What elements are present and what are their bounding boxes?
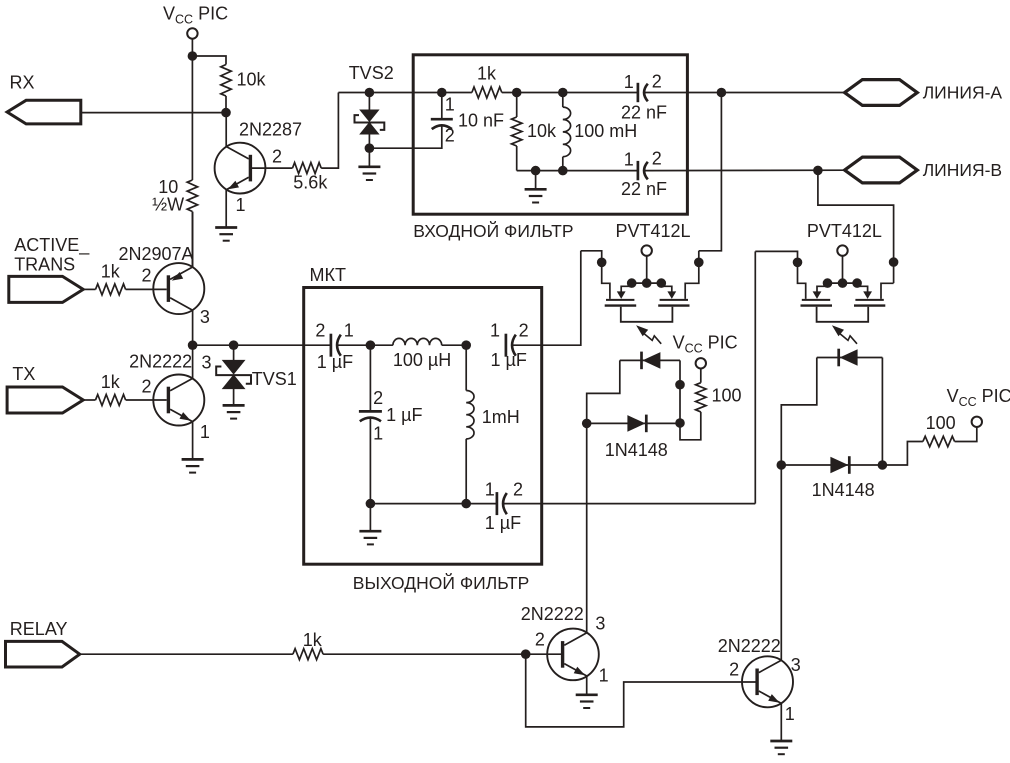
svg-text:1: 1 xyxy=(344,321,354,341)
pin 1 label xyxy=(344,321,354,341)
svg-text:1: 1 xyxy=(445,94,455,114)
svg-text:1: 1 xyxy=(373,423,383,443)
label 1N4148 xyxy=(605,440,668,460)
port RX label xyxy=(10,73,35,93)
svg-text:1 µF: 1 µF xyxy=(317,352,353,372)
inductor L 1mH xyxy=(466,391,474,439)
svg-text:3: 3 xyxy=(200,307,210,327)
wire xyxy=(233,345,235,360)
node junction xyxy=(461,340,471,350)
svg-text:1: 1 xyxy=(624,149,634,169)
port TX connector xyxy=(7,387,83,413)
node junction xyxy=(366,340,376,350)
wire VCC vertical xyxy=(191,56,193,180)
svg-text:2N2222: 2N2222 xyxy=(521,604,584,624)
terminal VCC PIC (top) xyxy=(187,28,197,38)
svg-text:1k: 1k xyxy=(101,261,121,281)
label PVT412L (right) xyxy=(807,221,882,241)
power VCC PIC (right) label xyxy=(947,386,1010,409)
pin 2 label xyxy=(272,147,282,167)
emitter arrow xyxy=(180,412,191,421)
wire xyxy=(83,288,95,290)
node junction xyxy=(188,340,198,350)
resistor R 1k (relay) xyxy=(293,649,323,660)
pin dot xyxy=(793,258,803,268)
wire xyxy=(562,93,564,108)
pin 2 label xyxy=(445,126,455,146)
svg-text:1N4148: 1N4148 xyxy=(812,480,875,500)
svg-text:RELAY: RELAY xyxy=(10,619,68,639)
label 1k xyxy=(101,261,121,281)
wire bottom output xyxy=(503,503,755,505)
opto arrow (left relay) xyxy=(636,325,661,344)
wire drain left xyxy=(755,251,805,299)
label 1k xyxy=(477,64,497,84)
diode D 1N4148 (right) xyxy=(830,456,849,474)
pin 3 label xyxy=(200,307,210,327)
svg-text:VCC PIC: VCC PIC xyxy=(163,4,228,27)
diode D 1N4148 (left) xyxy=(627,415,646,433)
pin 1 label xyxy=(485,480,495,500)
wire drain right xyxy=(881,283,894,299)
label 1N4148 xyxy=(812,480,875,500)
label 2N2222 (tx) xyxy=(129,352,192,372)
label PVT412L (left) xyxy=(616,221,691,241)
wire bottom rail xyxy=(517,170,637,172)
svg-text:1k: 1k xyxy=(101,372,121,392)
transistor Q2 2N2907A xyxy=(153,263,204,314)
svg-text:2: 2 xyxy=(519,321,529,341)
wire long vertical xyxy=(754,251,756,503)
pin 2 label xyxy=(535,630,545,650)
label 22 nF xyxy=(621,103,667,123)
wire xyxy=(881,358,883,466)
label half-W xyxy=(152,195,184,215)
svg-text:100: 100 xyxy=(926,413,956,433)
svg-text:2: 2 xyxy=(513,480,523,500)
emitter arrow xyxy=(768,694,779,703)
label 1k xyxy=(303,630,323,650)
pin dot xyxy=(675,380,685,390)
node junction xyxy=(365,88,375,98)
ground xyxy=(215,228,237,241)
emitter arrow (PNP) xyxy=(172,272,183,281)
svg-text:1k: 1k xyxy=(477,64,497,84)
wire top rail mid xyxy=(502,92,637,94)
wire xyxy=(192,56,226,65)
svg-text:3: 3 xyxy=(202,352,212,372)
port ACTIVE_TRANS connector xyxy=(9,276,83,302)
wire xyxy=(191,39,193,56)
port LINIYA-A label xyxy=(923,82,1003,102)
port TX label xyxy=(12,364,35,384)
pin 2 label xyxy=(142,376,152,396)
pin 1 label xyxy=(599,666,609,686)
node junction xyxy=(558,88,568,98)
pin 1 label xyxy=(200,422,210,442)
label 10k xyxy=(237,70,267,90)
svg-text:2N2287: 2N2287 xyxy=(239,119,302,139)
wire xyxy=(699,93,722,251)
wire top rail right xyxy=(645,92,845,94)
label 10 xyxy=(158,177,178,197)
svg-text:5.6k: 5.6k xyxy=(293,172,328,192)
power VCC PIC (mid) label xyxy=(673,333,738,356)
wire xyxy=(369,126,441,148)
capacitor C 1uF (series output) xyxy=(506,334,516,357)
pin 1 label xyxy=(373,423,383,443)
svg-text:1: 1 xyxy=(490,321,500,341)
terminal VCC PIC (mid) xyxy=(696,358,706,368)
svg-text:2: 2 xyxy=(535,630,545,650)
pin 3 label xyxy=(595,614,605,634)
pin 3 label xyxy=(202,352,212,372)
wire collector xyxy=(192,310,194,345)
wire base xyxy=(126,288,167,290)
wire emitter xyxy=(225,190,227,227)
wire xyxy=(680,360,701,439)
wire xyxy=(587,422,680,424)
node junction xyxy=(531,166,541,176)
svg-text:100 mH: 100 mH xyxy=(574,121,637,141)
resistor R 1k (filter) xyxy=(472,87,502,98)
node junction xyxy=(461,499,471,509)
wire ground stem xyxy=(535,171,537,189)
pin dot xyxy=(889,257,899,267)
svg-text:ВХОДНОЙ ФИЛЬТР: ВХОДНОЙ ФИЛЬТР xyxy=(413,220,573,241)
label 22 nF xyxy=(621,179,667,199)
svg-text:ВЫХОДНОЙ ФИЛЬТР: ВЫХОДНОЙ ФИЛЬТР xyxy=(353,572,530,593)
svg-text:½W: ½W xyxy=(152,195,184,215)
wire base xyxy=(126,399,167,401)
wire LED xyxy=(817,357,883,359)
svg-text:VCC PIC: VCC PIC xyxy=(947,386,1010,409)
resistor R 1k (active) xyxy=(96,284,126,295)
pin 1 label xyxy=(236,195,246,215)
port RX connector xyxy=(7,100,81,124)
port LINIYA-A connector xyxy=(845,80,918,106)
svg-text:2: 2 xyxy=(142,376,152,396)
label 2N2222 (relay b) xyxy=(718,636,781,656)
wire xyxy=(882,442,923,466)
ground xyxy=(182,459,204,472)
label 100 uH xyxy=(393,350,451,370)
pin 1 label xyxy=(624,72,634,92)
wire xyxy=(562,157,564,171)
svg-text:3: 3 xyxy=(791,655,801,675)
wire RX xyxy=(81,112,226,114)
svg-text:2: 2 xyxy=(652,149,662,169)
pin dot xyxy=(597,258,607,268)
pin 1 label xyxy=(624,149,634,169)
wire collector column xyxy=(586,423,588,633)
node junction xyxy=(188,51,198,61)
wire base step xyxy=(526,654,756,727)
pin dot xyxy=(694,258,704,268)
port LINIYA-B label xyxy=(923,160,1002,180)
ground xyxy=(358,167,380,180)
capacitor C 22nF (line A) xyxy=(638,83,648,102)
resistor R 100 (left) xyxy=(696,383,706,412)
diode LED (right relay) xyxy=(839,349,858,367)
label 1 uF xyxy=(485,513,521,533)
capacitor C 1uF (series bottom) xyxy=(497,492,507,515)
svg-text:1: 1 xyxy=(200,422,210,442)
emitter arrow xyxy=(574,667,585,676)
svg-text:10k: 10k xyxy=(527,121,557,141)
pin 2 label xyxy=(142,266,152,286)
port RELAY label xyxy=(10,619,68,639)
wire xyxy=(818,170,894,283)
svg-text:1 µF: 1 µF xyxy=(485,513,521,533)
relay U1 PVT412L output mosfets xyxy=(605,245,690,321)
wire bottom rail xyxy=(370,503,497,505)
wire xyxy=(781,358,817,466)
wire ground stem xyxy=(368,148,370,166)
label 100 mH xyxy=(574,121,637,141)
svg-text:2N2222: 2N2222 xyxy=(129,352,192,372)
svg-text:2: 2 xyxy=(373,388,383,408)
wire xyxy=(368,93,370,110)
label 1mH xyxy=(482,407,520,427)
ground xyxy=(770,741,792,754)
port ACTIVE_TRANS label xyxy=(14,235,90,274)
wire base xyxy=(526,653,561,655)
terminal VCC PIC (right) xyxy=(972,417,982,427)
node junction xyxy=(229,340,239,350)
svg-text:1: 1 xyxy=(236,195,246,215)
svg-text:2: 2 xyxy=(652,71,662,91)
svg-text:TX: TX xyxy=(12,364,35,384)
wire xyxy=(225,96,227,113)
svg-text:2: 2 xyxy=(315,321,325,341)
svg-text:100: 100 xyxy=(712,386,742,406)
wire xyxy=(369,418,371,504)
label MKT xyxy=(310,265,346,285)
ground xyxy=(525,189,547,202)
svg-text:PVT412L: PVT412L xyxy=(616,221,691,241)
svg-text:1k: 1k xyxy=(303,630,323,650)
pin 1 label xyxy=(490,321,500,341)
inductor L 100uH xyxy=(393,338,442,345)
pin 2 label xyxy=(373,388,383,408)
svg-text:1 µF: 1 µF xyxy=(386,405,422,425)
svg-text:2: 2 xyxy=(272,147,282,167)
wire collector xyxy=(192,345,194,378)
wire xyxy=(80,653,293,655)
wire xyxy=(516,93,518,118)
resistor R 5.6k xyxy=(293,163,322,174)
node junction xyxy=(878,460,888,470)
label 1 uF xyxy=(317,352,353,372)
svg-text:2N2907A: 2N2907A xyxy=(119,244,194,264)
svg-text:3: 3 xyxy=(595,614,605,634)
transistor Q1 2N2287 xyxy=(215,143,266,194)
svg-text:2: 2 xyxy=(142,266,152,286)
transistor Q3 2N2222 xyxy=(153,375,204,426)
svg-text:VCC PIC: VCC PIC xyxy=(673,333,738,356)
caption VYHODNOY FILTR xyxy=(353,572,530,593)
node junction xyxy=(777,460,787,470)
svg-text:22 nF: 22 nF xyxy=(621,103,667,123)
svg-text:2: 2 xyxy=(729,659,739,679)
resistor R 10 half-watt xyxy=(187,180,197,212)
TVS diode TVS1 xyxy=(216,360,251,389)
pin 2 label xyxy=(729,659,739,679)
svg-text:TVS1: TVS1 xyxy=(252,369,297,389)
label 1 uF xyxy=(491,350,527,370)
transistor Q4 2N2222 xyxy=(547,629,599,681)
pin 2 label xyxy=(652,71,662,91)
label 1k xyxy=(101,372,121,392)
svg-text:1: 1 xyxy=(624,72,634,92)
label TVS1 xyxy=(252,369,297,389)
svg-text:ЛИНИЯ-А: ЛИНИЯ-А xyxy=(923,82,1003,102)
wire xyxy=(233,389,235,405)
label 10 nF xyxy=(458,110,504,130)
transistor Q5 2N2222 xyxy=(742,656,793,707)
ground xyxy=(223,405,245,418)
wire xyxy=(465,345,467,390)
label 2N2222 (relay a) xyxy=(521,604,584,624)
capacitor C 1uF (series input) xyxy=(331,334,341,357)
TVS diode TVS2 xyxy=(355,110,385,135)
resistor R 10k (filter) xyxy=(512,117,522,146)
pin 2 label xyxy=(652,149,662,169)
wire ground stem xyxy=(369,504,371,531)
relay U2 PVT412L output mosfets xyxy=(801,245,886,321)
wire xyxy=(442,344,467,346)
wire base xyxy=(250,167,292,169)
node junction xyxy=(717,88,727,98)
wire xyxy=(193,344,234,346)
node junction xyxy=(521,649,531,659)
wire drain right xyxy=(685,251,699,299)
wire xyxy=(83,399,95,401)
label TVS2 xyxy=(349,63,394,83)
wire xyxy=(781,464,882,466)
pin 2 label xyxy=(513,480,523,500)
svg-text:1: 1 xyxy=(599,666,609,686)
output filter box xyxy=(304,288,542,565)
wire xyxy=(465,439,467,504)
pin dot xyxy=(675,418,685,428)
node junction xyxy=(582,419,592,429)
label 2N2907A xyxy=(119,244,194,264)
capacitor C 10nF xyxy=(431,119,453,129)
pin 2 label xyxy=(315,321,325,341)
svg-text:100 µH: 100 µH xyxy=(393,350,451,370)
wire LED xyxy=(620,359,680,361)
capacitor C 22nF (line B) xyxy=(638,161,648,180)
resistor R 1k (tx) xyxy=(96,395,126,406)
svg-text:TVS2: TVS2 xyxy=(349,63,394,83)
wire emitter xyxy=(586,676,588,694)
wire xyxy=(516,146,518,171)
wire collector column xyxy=(780,465,782,660)
svg-text:1: 1 xyxy=(785,704,795,724)
svg-text:22 nF: 22 nF xyxy=(621,179,667,199)
label 2N2287 xyxy=(239,119,302,139)
svg-text:10 nF: 10 nF xyxy=(458,110,504,130)
capacitor C 1uF (shunt) xyxy=(359,411,382,421)
svg-text:10k: 10k xyxy=(237,70,267,90)
wire output xyxy=(513,251,581,345)
wire xyxy=(338,344,393,346)
ground xyxy=(576,695,598,708)
svg-text:1N4148: 1N4148 xyxy=(605,440,668,460)
wire emitter xyxy=(192,422,194,459)
input filter box xyxy=(413,55,687,214)
node junction xyxy=(365,143,375,153)
node junction xyxy=(221,108,231,118)
svg-text:МКТ: МКТ xyxy=(310,265,346,285)
power VCC PIC (top) label xyxy=(163,4,228,27)
svg-text:1mH: 1mH xyxy=(482,407,520,427)
diode LED (left relay) xyxy=(642,352,661,370)
inductor L 100mH xyxy=(563,107,571,157)
wire xyxy=(587,360,620,423)
port LINIYA-B connector xyxy=(845,157,918,183)
svg-text:RX: RX xyxy=(10,73,35,93)
label 5.6k xyxy=(293,172,328,192)
pin 1 label xyxy=(785,704,795,724)
ground xyxy=(359,531,381,544)
label 100 xyxy=(712,386,742,406)
svg-text:2: 2 xyxy=(445,126,455,146)
wire bottom rail right xyxy=(645,169,845,171)
port RELAY connector xyxy=(6,641,80,667)
node junction xyxy=(437,88,447,98)
svg-text:ACTIVE_: ACTIVE_ xyxy=(14,235,90,256)
wire xyxy=(191,212,193,268)
caption VHODNOY FILTR xyxy=(413,220,573,241)
wire shunt cap xyxy=(369,345,371,410)
pin 2 label xyxy=(519,321,529,341)
label 1 uF xyxy=(386,405,422,425)
wire drain left xyxy=(581,251,610,299)
wire collector xyxy=(225,113,227,147)
svg-text:ЛИНИЯ-В: ЛИНИЯ-В xyxy=(923,160,1002,180)
wire cap pin 1 xyxy=(441,93,443,119)
node junction xyxy=(366,499,376,509)
pin 1 label xyxy=(445,94,455,114)
svg-text:TRANS: TRANS xyxy=(14,254,75,274)
resistor R 10k (pull-up) xyxy=(221,65,231,97)
wire xyxy=(955,427,977,442)
label 100 xyxy=(926,413,956,433)
wire emitter xyxy=(192,212,194,267)
wire xyxy=(321,93,338,169)
svg-text:PVT412L: PVT412L xyxy=(807,221,882,241)
wire top rail left xyxy=(338,92,472,94)
wire emitter xyxy=(780,703,782,740)
svg-text:1: 1 xyxy=(485,480,495,500)
wire input xyxy=(234,344,331,346)
node junction xyxy=(512,88,522,98)
svg-text:2N2222: 2N2222 xyxy=(718,636,781,656)
node junction xyxy=(813,166,823,176)
wire xyxy=(368,135,370,149)
label 10k xyxy=(527,121,557,141)
node junction xyxy=(558,166,568,176)
emitter arrow xyxy=(228,181,239,190)
wire xyxy=(700,369,702,383)
resistor R 100 (right) xyxy=(923,436,955,446)
opto arrow (right relay) xyxy=(832,325,857,344)
svg-text:1 µF: 1 µF xyxy=(491,350,527,370)
pin 3 label xyxy=(791,655,801,675)
